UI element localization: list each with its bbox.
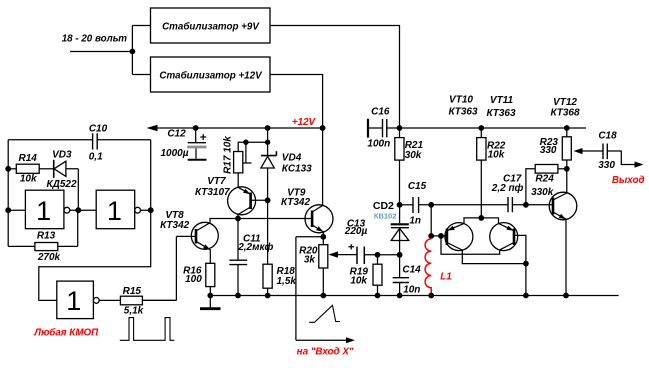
svg-text:Стабилизатор +12V: Стабилизатор +12V	[159, 71, 263, 82]
svg-text:C10: C10	[89, 123, 108, 134]
svg-text:1,5k: 1,5k	[277, 276, 297, 287]
svg-text:VT7: VT7	[207, 176, 226, 187]
svg-text:10k: 10k	[20, 174, 37, 185]
svg-text:C18: C18	[598, 130, 617, 141]
svg-text:C14: C14	[402, 265, 421, 276]
svg-text:0,1: 0,1	[89, 151, 103, 162]
svg-text:КТ342: КТ342	[160, 220, 190, 231]
svg-text:1: 1	[107, 196, 122, 226]
svg-text:КТ363: КТ363	[448, 106, 478, 117]
svg-text:VT10: VT10	[449, 94, 473, 105]
svg-text:220µ: 220µ	[344, 226, 368, 237]
svg-text:100: 100	[185, 274, 202, 285]
svg-text:Выход: Выход	[612, 175, 645, 186]
svg-text:10k: 10k	[488, 150, 505, 161]
svg-text:VD4: VD4	[282, 152, 302, 163]
svg-text:КТ363: КТ363	[486, 108, 516, 119]
svg-text:330: 330	[598, 160, 615, 171]
svg-text:2,2 пф: 2,2 пф	[491, 182, 524, 194]
svg-text:330: 330	[540, 145, 557, 156]
svg-text:18 - 20 вольт: 18 - 20 вольт	[62, 34, 128, 45]
svg-text:VD3: VD3	[52, 149, 72, 160]
svg-text:CD2: CD2	[373, 200, 394, 212]
svg-text:3k: 3k	[304, 254, 316, 265]
svg-text:R14: R14	[19, 153, 38, 164]
svg-text:КТ3107: КТ3107	[195, 187, 230, 198]
svg-text:КД522: КД522	[46, 179, 76, 190]
svg-text:270k: 270k	[37, 252, 61, 263]
svg-text:VT11: VT11	[490, 95, 514, 106]
svg-text:C15: C15	[408, 181, 427, 192]
svg-text:1n: 1n	[409, 215, 421, 226]
svg-text:КТ368: КТ368	[550, 108, 580, 119]
svg-text:2,2мкф: 2,2мкф	[237, 241, 273, 253]
svg-text:L1: L1	[440, 272, 451, 283]
svg-text:C12: C12	[167, 129, 186, 140]
svg-text:VT12: VT12	[553, 97, 577, 108]
svg-text:30k: 30k	[405, 150, 422, 161]
svg-text:1: 1	[36, 196, 51, 226]
svg-text:R15: R15	[123, 286, 142, 297]
svg-text:на "Вход X": на "Вход X"	[297, 347, 354, 358]
svg-text:R13: R13	[37, 231, 56, 242]
svg-text:10n: 10n	[403, 284, 420, 295]
svg-text:Любая КМОП: Любая КМОП	[33, 328, 99, 339]
svg-text:R24: R24	[535, 174, 554, 185]
svg-text:1000µ: 1000µ	[160, 148, 188, 159]
svg-text:КС133: КС133	[282, 163, 312, 174]
svg-text:+12V: +12V	[292, 117, 317, 128]
svg-text:330k: 330k	[531, 187, 554, 198]
svg-text:5,1k: 5,1k	[124, 306, 144, 317]
svg-text:C16: C16	[371, 106, 390, 117]
svg-text:1: 1	[66, 286, 81, 316]
svg-text:R17 10k: R17 10k	[223, 136, 234, 174]
svg-text:КТ342: КТ342	[281, 197, 311, 208]
svg-text:КВ102: КВ102	[374, 212, 397, 221]
svg-text:Стабилизатор +9V: Стабилизатор +9V	[162, 22, 260, 33]
svg-text:100n: 100n	[367, 139, 390, 150]
svg-text:10k: 10k	[350, 276, 367, 287]
